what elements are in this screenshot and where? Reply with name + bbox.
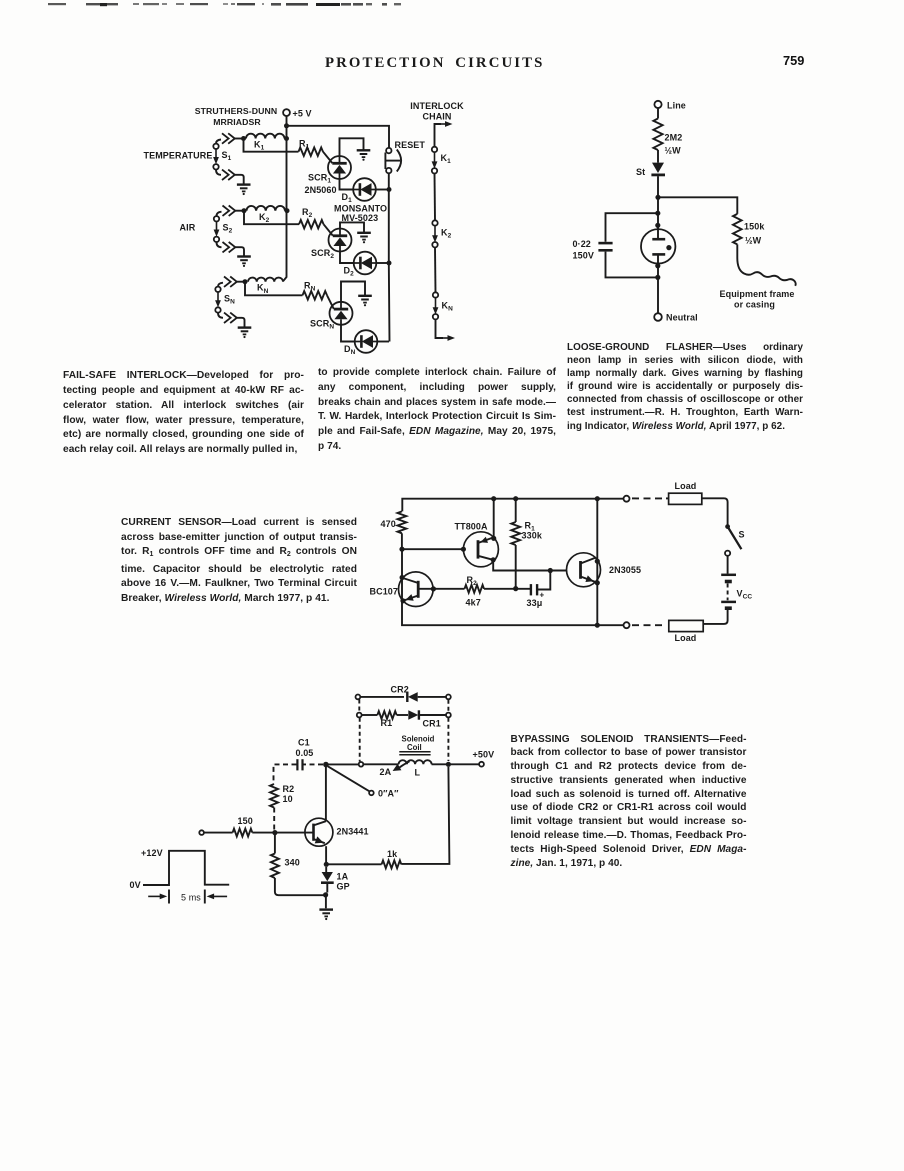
svg-text:GP: GP — [337, 881, 350, 891]
wire emitter down — [325, 846, 327, 864]
wire battery to load bottom — [703, 610, 727, 624]
relay contact upper row 1 — [216, 140, 221, 144]
resistor 1k — [382, 860, 402, 868]
wire left vertical — [402, 549, 624, 625]
svg-text:Load: Load — [675, 481, 697, 491]
svg-text:½W: ½W — [745, 236, 762, 246]
svg-text:K1: K1 — [254, 140, 265, 152]
node contact-coil junction row 3 — [243, 279, 248, 284]
page number — [783, 53, 804, 68]
wire left supply rail — [283, 126, 287, 281]
svg-text:K2: K2 — [441, 228, 452, 240]
svg-text:340: 340 — [285, 857, 300, 867]
svg-text:2A: 2A — [380, 767, 392, 777]
LED D2 MONSANTO MV-5023 — [354, 252, 377, 275]
ground main — [325, 895, 327, 908]
wire 2N3055 collector-emitter rail — [595, 496, 600, 501]
LED D1 MONSANTO MV-5023 — [353, 178, 376, 201]
svg-text:C1: C1 — [298, 737, 310, 747]
node CR2 left terminal — [356, 695, 361, 700]
node R1 bottom junction — [513, 586, 518, 591]
diode St — [652, 163, 664, 173]
diagonal wire to 0A test point — [328, 766, 370, 791]
relay coil K3 — [248, 278, 283, 282]
resistor 340 — [274, 833, 276, 854]
svg-text:SCRN: SCRN — [310, 319, 334, 331]
node top rail connector — [624, 496, 630, 502]
node lamp top — [655, 223, 660, 228]
svg-text:INTERLOCK: INTERLOCK — [410, 101, 464, 111]
LED D3 MONSANTO MV-5023 — [355, 330, 378, 353]
svg-text:R2: R2 — [283, 784, 295, 794]
resistor R2 — [299, 220, 324, 228]
wire R2 to capacitor — [484, 588, 530, 590]
current arrow 2A — [398, 761, 410, 768]
wire capacitor branch — [606, 213, 658, 242]
svg-text:Load: Load — [675, 633, 697, 643]
node TT800A collector — [491, 557, 496, 562]
diode CR1 — [408, 710, 418, 719]
transistor 2N3055 — [567, 553, 601, 587]
capacitor 33uF — [530, 584, 532, 595]
wire dashed to load — [632, 497, 666, 499]
svg-text:0″A″: 0″A″ — [378, 789, 399, 799]
svg-text:CR1: CR1 — [423, 719, 441, 729]
switch S2 — [216, 221, 218, 233]
wire collector node to coil — [326, 763, 359, 765]
pushbutton RESET — [386, 148, 391, 153]
wire SCR1 anode to ground — [340, 138, 364, 156]
chain contact K2 — [432, 220, 437, 225]
wire D2 to right rail — [376, 262, 389, 264]
wire CR2 row — [360, 696, 404, 698]
wire gate lead row 1 — [323, 152, 332, 163]
svg-text:BC107: BC107 — [370, 587, 399, 597]
capacitor C1 0.05 dashed feedback — [303, 763, 323, 765]
svg-text:VCC: VCC — [737, 589, 753, 601]
wire squiggle to equipment frame — [737, 244, 795, 285]
svg-text:KN: KN — [442, 301, 454, 313]
node CR2 right terminal — [446, 695, 451, 700]
node coil-output junction — [446, 762, 451, 767]
node R1 left terminal — [357, 713, 362, 718]
svg-text:R1: R1 — [381, 718, 393, 728]
svg-text:RN: RN — [304, 281, 316, 293]
node TT800A emitter to rail — [491, 536, 496, 541]
svg-text:470: 470 — [381, 519, 396, 529]
relay contact lower row 2 — [217, 242, 222, 247]
svg-text:K1: K1 — [441, 153, 452, 165]
wire SCR3 anode to ground — [341, 282, 365, 302]
svg-text:D2: D2 — [344, 266, 355, 278]
svg-text:+5 V: +5 V — [293, 109, 312, 119]
svg-text:½W: ½W — [665, 146, 682, 156]
wire 1k to emitter node — [326, 863, 381, 865]
wire gate lead row 2 — [324, 224, 333, 235]
scan artifact dashes — [48, 3, 66, 5]
svg-text:AIR: AIR — [180, 223, 196, 233]
wire diode to lamp — [657, 176, 659, 239]
wire dashed bottom rail — [632, 624, 667, 626]
SCR1 thyristor — [328, 156, 351, 179]
svg-text:0V: 0V — [130, 880, 141, 890]
svg-text:1A: 1A — [337, 871, 349, 881]
relay contact upper row 3 — [218, 283, 223, 287]
running head — [325, 55, 544, 72]
node Line terminal — [654, 101, 661, 108]
svg-text:St: St — [636, 167, 645, 177]
svg-text:+12V: +12V — [141, 848, 163, 858]
ground at SCR1 — [357, 149, 371, 151]
wire lamp to neutral — [657, 254, 659, 313]
svg-text:S1: S1 — [222, 150, 232, 162]
node 0A terminal — [369, 791, 374, 796]
svg-text:2N5060: 2N5060 — [305, 185, 337, 195]
chain contact K1 — [432, 147, 437, 152]
svg-text:0.05: 0.05 — [296, 748, 314, 758]
resistor R2 10 — [270, 784, 278, 808]
svg-text:R2: R2 — [302, 207, 313, 219]
svg-text:10: 10 — [283, 794, 293, 804]
node BC107 emitter junction — [400, 598, 405, 603]
dashed risers CR network — [358, 700, 360, 713]
relay contact lower row 1 — [216, 170, 221, 175]
wire +5V to rail — [286, 116, 288, 126]
svg-text:330k: 330k — [522, 531, 543, 541]
resistor 150k 1/2W — [733, 214, 742, 245]
svg-text:or casing: or casing — [734, 300, 775, 310]
svg-text:K2: K2 — [259, 212, 270, 224]
svg-text:SN: SN — [224, 294, 235, 306]
switch S3 — [217, 292, 219, 304]
SCR2 thyristor — [329, 229, 352, 252]
wire SCR1 cathode to D1 — [340, 179, 354, 190]
wire 340 to ground line — [275, 878, 326, 895]
wire coil junction to gate resistor row 1 — [244, 139, 299, 152]
wire gate lead row 3 — [327, 295, 334, 309]
wire BC107 base to R2 — [418, 588, 464, 590]
node plug connector — [359, 762, 364, 767]
relay coil K2 — [247, 206, 285, 211]
svg-text:DN: DN — [344, 344, 356, 356]
svg-text:RESET: RESET — [395, 140, 426, 150]
pulse width ticks — [168, 890, 170, 904]
svg-text:KN: KN — [257, 283, 269, 295]
capacitor 0.22 150V — [598, 242, 612, 245]
svg-text:Solenoid: Solenoid — [402, 734, 435, 743]
wire D1 to right rail — [376, 189, 389, 191]
transistor 2N3441 — [305, 818, 333, 846]
chain bottom arrow — [436, 319, 444, 338]
svg-text:CR2: CR2 — [391, 684, 409, 694]
svg-text:SCR1: SCR1 — [308, 173, 331, 185]
wire top rail current sensor — [402, 499, 623, 512]
wire R1 to CR1 — [397, 714, 408, 716]
node emitter junction — [324, 862, 329, 867]
SCR3 thyristor — [330, 302, 353, 325]
node bottom rail connector — [624, 622, 630, 628]
wire right drop to 1k — [401, 767, 449, 864]
relay contact lower row 3 — [218, 313, 223, 318]
relay coil K1 — [246, 134, 284, 139]
wire SCR3 cathode to D3 — [341, 325, 355, 342]
svg-text:4k7: 4k7 — [466, 598, 481, 608]
resistor 150 — [233, 829, 253, 837]
node lamp bottom — [655, 263, 660, 268]
wire right rail reset to DN — [388, 173, 391, 341]
transistor BC107 — [399, 572, 434, 607]
relay contact upper row 2 — [217, 212, 222, 216]
node input terminal — [199, 830, 204, 835]
svg-text:Coil: Coil — [407, 743, 422, 752]
node contact-coil junction row 1 — [241, 136, 246, 141]
wire rail drop to TT800A — [493, 499, 495, 539]
svg-text:Line: Line — [667, 100, 686, 110]
node R1-CR1 right terminal — [446, 713, 451, 718]
wire junction to TT800A base — [402, 548, 463, 550]
resistor R1 — [299, 148, 324, 156]
svg-text:150: 150 — [238, 816, 253, 826]
wire dashed R2 to base node — [273, 808, 275, 831]
svg-text:CHAIN: CHAIN — [423, 112, 452, 122]
svg-text:L: L — [415, 767, 421, 777]
resistor R1 330k — [513, 496, 518, 501]
wire collector up — [325, 765, 327, 822]
ground under S1 — [237, 183, 251, 185]
wire TT800A collector to 2N3055 base — [493, 560, 566, 571]
wire SCR2 anode to ground — [340, 222, 364, 232]
svg-text:2N3441: 2N3441 — [337, 827, 369, 837]
node +50V terminal — [479, 762, 484, 767]
wire chain K2-KN — [434, 247, 437, 292]
wire input to 150 — [204, 832, 233, 834]
wire chain K1-K2 — [434, 174, 437, 221]
svg-text:0·22: 0·22 — [573, 239, 591, 249]
node BC107 collector junction — [400, 575, 405, 580]
node D1 rail junction — [387, 187, 392, 192]
load box top — [669, 493, 702, 504]
wire switch to battery — [727, 556, 729, 574]
node base junction — [272, 830, 277, 835]
solenoid coil L — [399, 760, 432, 764]
wire D3 to right rail — [377, 341, 389, 343]
node D2 rail junction — [387, 261, 392, 266]
battery Vcc — [721, 574, 736, 577]
wire 150 to base node — [252, 832, 313, 834]
node collector top junction — [323, 762, 329, 768]
switch S — [725, 524, 730, 529]
svg-text:MONSANTO: MONSANTO — [334, 203, 387, 213]
wire R1 row — [362, 714, 378, 716]
wire capacitor to base node — [538, 571, 550, 590]
svg-text:33μ: 33μ — [527, 598, 543, 608]
node capacitor branch top — [655, 211, 660, 216]
ground at SCR3 — [358, 295, 372, 297]
resistor 470 — [398, 511, 407, 533]
svg-text:MV-5023: MV-5023 — [342, 213, 379, 223]
node contact-coil junction row 2 — [242, 208, 247, 213]
node Neutral terminal — [654, 313, 662, 321]
svg-text:150k: 150k — [744, 222, 765, 232]
svg-text:5 ms: 5 ms — [181, 893, 201, 903]
chain contact KN — [433, 292, 438, 297]
transistor TT800A — [463, 532, 498, 567]
svg-text:+50V: +50V — [473, 749, 495, 759]
wire 470 to junction — [401, 533, 403, 549]
svg-text:TT800A: TT800A — [455, 522, 489, 532]
neon lamp — [641, 229, 675, 263]
node base feed junction — [399, 547, 404, 552]
svg-text:SCR2: SCR2 — [311, 248, 334, 260]
node +5V supply terminal — [283, 109, 290, 116]
node junction to 150k — [655, 195, 660, 200]
wire load to switch — [702, 498, 728, 525]
wire resistor to diode — [657, 150, 659, 163]
diode 1A GP — [325, 867, 327, 872]
svg-text:Neutral: Neutral — [666, 313, 698, 323]
svg-text:MRRIADSR: MRRIADSR — [213, 117, 261, 127]
ground at SCR2 — [357, 232, 371, 234]
pulse waveform — [143, 851, 229, 885]
wire line to resistor — [657, 108, 659, 119]
svg-text:S2: S2 — [223, 223, 233, 235]
svg-text:Equipment frame: Equipment frame — [720, 289, 795, 299]
wire coil to +50V — [432, 763, 480, 765]
load box bottom — [669, 620, 703, 631]
resistor R1 (solenoid) — [377, 711, 396, 719]
wire coil junction to gate resistor row 3 — [245, 282, 303, 296]
svg-text:150V: 150V — [573, 250, 594, 260]
wire dashed C1 to R2 — [274, 764, 297, 784]
svg-text:2N3055: 2N3055 — [609, 565, 641, 575]
wire top rail to reset — [287, 126, 390, 148]
wire coil junction to gate resistor row 2 — [244, 211, 299, 225]
resistor R3 — [303, 291, 328, 299]
svg-text:STRUTHERS-DUNN: STRUTHERS-DUNN — [195, 106, 277, 116]
svg-text:TEMPERATURE: TEMPERATURE — [144, 151, 213, 161]
svg-text:S: S — [739, 530, 745, 540]
interlock chain top arrow — [435, 124, 442, 147]
node capacitor rejoin — [655, 275, 660, 280]
resistor R2 4k7 — [465, 585, 485, 593]
ground under S3 — [238, 326, 252, 328]
wire capacitor bottom branch — [606, 252, 658, 278]
ground under S2 — [237, 255, 251, 257]
resistor 2M2 1/2W — [653, 119, 662, 151]
wire to 150k resistor — [658, 197, 737, 214]
svg-text:1k: 1k — [387, 849, 398, 859]
svg-text:2M2: 2M2 — [665, 133, 683, 143]
wire SCR2 cathode to D2 — [340, 252, 354, 264]
diode CR2 — [406, 692, 408, 702]
switch S1 — [215, 149, 217, 161]
node ground junction — [323, 892, 328, 897]
